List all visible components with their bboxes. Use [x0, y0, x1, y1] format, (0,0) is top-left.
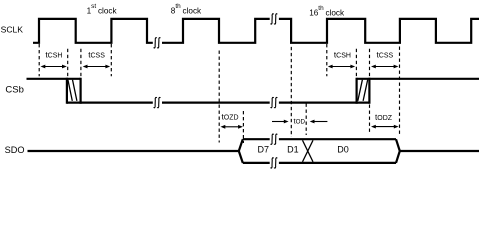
dashed line at SCLK rising edge 17 — [399, 47, 401, 137]
dashed line at CSb fall end — [80, 49, 82, 78]
tCSS arrow (right) — [375, 66, 394, 68]
tCSS arrow (left) — [87, 66, 106, 68]
SDO top rail break gap — [270, 137, 279, 142]
dashed line at CSb rise start — [355, 49, 357, 78]
dashed line at CSb rise end (upper) — [369, 49, 371, 78]
tOD left arrow — [272, 121, 285, 123]
svg-text:tOD: tOD — [294, 117, 306, 126]
SDO bus close transition — [396, 139, 400, 163]
tOD right arrow — [314, 121, 328, 123]
SDO bus top rail — [243, 138, 396, 140]
SDO idle line (right) — [400, 150, 479, 152]
CSb low segment — [67, 101, 370, 103]
CSb rising transition box — [357, 78, 370, 104]
SCLK high-line break gap — [270, 16, 279, 21]
SDO top rail break mark — [271, 134, 278, 144]
SCLK high-line break mark — [271, 14, 278, 24]
svg-text:tODZ: tODZ — [375, 113, 393, 122]
CSb high segment (right) — [357, 78, 479, 80]
SCLK low-line break mark — [154, 38, 161, 48]
svg-text:tCSH: tCSH — [334, 51, 351, 60]
svg-text:SDO: SDO — [5, 145, 25, 155]
SCLK low-line break gap — [153, 40, 162, 45]
dashed line at SDO bus open — [242, 111, 244, 143]
svg-text:tCSS: tCSS — [88, 51, 105, 60]
CSb rising transition hatch — [358, 80, 368, 101]
CSb high segment (left) — [27, 78, 81, 80]
CSb falling transition hatch — [68, 80, 77, 101]
dashed line at CSb fall start — [67, 49, 69, 78]
CSb low-line break gap 2 — [270, 100, 279, 105]
tCSH arrow (left) — [45, 66, 63, 68]
svg-text:D0: D0 — [337, 145, 349, 155]
SDO data crossover X — [303, 140, 314, 162]
svg-text:SCLK: SCLK — [1, 24, 24, 34]
CSb falling transition box — [67, 78, 81, 104]
dashed line at SCLK rising edge 16 — [326, 44, 328, 76]
svg-text:CSb: CSb — [5, 85, 23, 96]
svg-text:tOZD: tOZD — [222, 113, 239, 122]
dashed line at SDO data change — [305, 104, 307, 136]
svg-text:tCSS: tCSS — [377, 51, 394, 60]
dashed line at SCLK rising edge 1 — [38, 44, 40, 76]
CSb low-line break mark 2 — [271, 97, 278, 107]
dashed line at CSb rise end (lower) — [369, 105, 371, 134]
dashed line at SCLK falling edge 16 — [290, 47, 292, 137]
dashed line at SCLK falling edge 8 — [218, 51, 220, 143]
SDO idle line (left) — [28, 150, 239, 152]
CSb low-line break mark 1 — [154, 97, 161, 107]
svg-text:D1: D1 — [287, 145, 299, 155]
svg-text:tCSH: tCSH — [45, 51, 62, 60]
SDO bus bottom rail — [243, 162, 396, 164]
CSb low-line break gap 1 — [153, 100, 162, 105]
SDO bottom rail break mark — [271, 158, 278, 168]
tODZ arrow — [375, 126, 394, 128]
dashed line at SCLK rising edge 2 — [110, 44, 112, 76]
SCLK waveform — [33, 19, 479, 43]
SDO bus open transition — [239, 139, 243, 163]
svg-text:D7: D7 — [258, 145, 270, 155]
tCSH arrow (right) — [332, 66, 351, 68]
SDO bottom rail break gap — [270, 160, 279, 165]
tOZD arrow — [225, 126, 239, 128]
